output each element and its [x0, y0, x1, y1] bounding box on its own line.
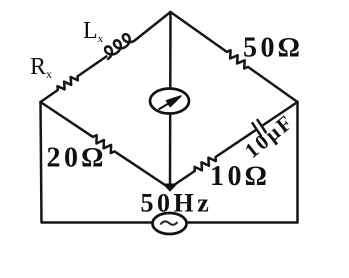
svg-text:Rx: Rx: [30, 54, 52, 81]
svg-text:Lx: Lx: [83, 18, 104, 45]
svg-text:50Hz: 50Hz: [141, 189, 213, 218]
svg-text:20Ω: 20Ω: [47, 143, 107, 174]
svg-text:10Ω: 10Ω: [210, 161, 270, 192]
svg-text:50Ω: 50Ω: [243, 33, 303, 64]
svg-text:10μF: 10μF: [240, 109, 298, 163]
